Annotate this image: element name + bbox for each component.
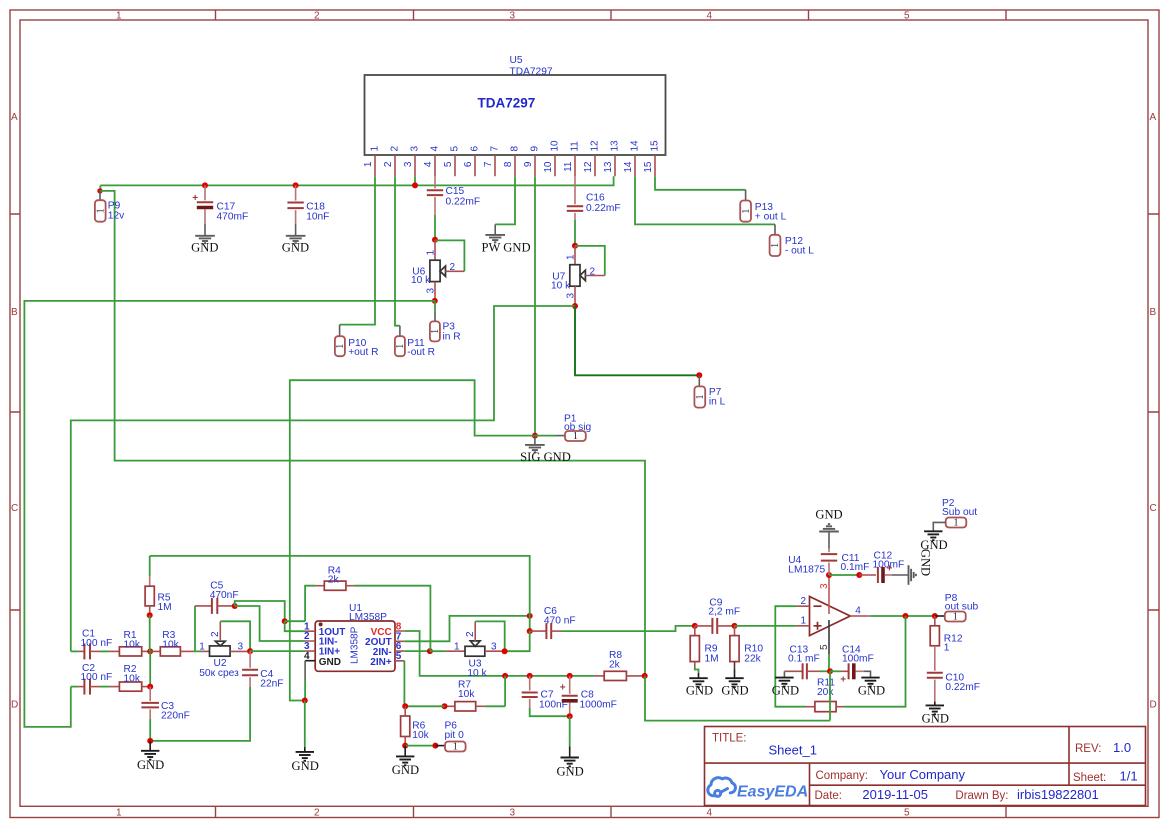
capacitor C2 bbox=[71, 679, 110, 695]
svg-text:0.1mF: 0.1mF bbox=[841, 562, 870, 573]
node SIG junction bbox=[532, 433, 538, 439]
wire C9 to U4 pin1 bbox=[735, 625, 797, 627]
svg-text:LM358P: LM358P bbox=[349, 612, 387, 623]
node R2-C3 junction bbox=[147, 684, 153, 690]
capacitor C18 bbox=[287, 182, 303, 235]
port P7 stub bbox=[698, 375, 700, 386]
node C12 junction bbox=[856, 572, 862, 578]
wire junction to R4 bbox=[285, 620, 305, 622]
node P7 junction bbox=[696, 372, 702, 378]
ground below P2 bbox=[924, 531, 942, 540]
svg-text:B: B bbox=[1150, 307, 1157, 318]
port P13 bbox=[740, 201, 751, 222]
ground below C13 bbox=[775, 678, 793, 687]
wire C6 to U3 pin3 row bbox=[505, 631, 530, 651]
svg-text:1: 1 bbox=[454, 641, 460, 652]
svg-text:15: 15 bbox=[643, 161, 654, 173]
wire 12v net from P9 to LM1875 rail bbox=[100, 191, 645, 676]
port P12 bbox=[770, 235, 781, 256]
op-amp U4 pin5 stub bbox=[828, 620, 830, 654]
svg-text:A: A bbox=[1150, 112, 1157, 123]
frame row ticks right bbox=[1148, 214, 1159, 610]
svg-text:12v: 12v bbox=[108, 211, 125, 222]
capacitor C8 bbox=[560, 676, 578, 716]
svg-text:SIG GND: SIG GND bbox=[520, 450, 571, 464]
svg-text:5: 5 bbox=[904, 11, 910, 22]
svg-text:3: 3 bbox=[410, 146, 421, 152]
svg-text:470mF: 470mF bbox=[217, 211, 249, 222]
wire in-L to P7 bbox=[575, 306, 699, 375]
svg-text:REV:: REV: bbox=[1075, 743, 1101, 755]
svg-text:12: 12 bbox=[583, 161, 594, 173]
resistor R1 bbox=[109, 647, 150, 656]
svg-text:1: 1 bbox=[954, 518, 959, 529]
op-amp U1 LM358P body bbox=[315, 621, 395, 671]
svg-text:1: 1 bbox=[395, 344, 406, 349]
svg-text:3: 3 bbox=[510, 808, 516, 819]
node R6 top junction bbox=[402, 703, 408, 709]
svg-text:5: 5 bbox=[819, 644, 830, 650]
svg-text:2: 2 bbox=[801, 596, 807, 607]
svg-text:1: 1 bbox=[953, 612, 958, 623]
wire C6 output to C9 bbox=[562, 626, 695, 631]
svg-text:6: 6 bbox=[470, 146, 481, 152]
port P10 stub bbox=[339, 325, 341, 337]
power ground PW GND bbox=[494, 224, 496, 235]
svg-text:2: 2 bbox=[314, 808, 320, 819]
wire C5 loop to R4 and pin1 bbox=[235, 601, 285, 621]
svg-text:GND: GND bbox=[922, 712, 949, 726]
ground above C11 inverted bbox=[828, 532, 830, 549]
ground below R9 bbox=[698, 673, 700, 678]
capacitor C13 bbox=[784, 663, 830, 679]
svg-text:1: 1 bbox=[96, 208, 107, 213]
VCC rail junction R7 bbox=[502, 673, 508, 679]
svg-text:+: + bbox=[840, 674, 846, 685]
ground below R10 bbox=[734, 670, 736, 679]
port P12 stub bbox=[774, 224, 776, 234]
svg-text:22nF: 22nF bbox=[260, 678, 283, 689]
wire junction to R2 row bbox=[149, 651, 151, 686]
port P8 bbox=[945, 612, 966, 622]
node P6 junction bbox=[432, 743, 438, 749]
svg-text:GND: GND bbox=[292, 759, 319, 773]
svg-text:in R: in R bbox=[443, 331, 461, 342]
svg-text:TDA7297: TDA7297 bbox=[510, 67, 553, 78]
svg-text:8: 8 bbox=[503, 161, 514, 167]
capacitor C10 bbox=[927, 673, 943, 702]
node C9 left junction bbox=[692, 623, 698, 629]
svg-text:20k: 20k bbox=[817, 687, 834, 698]
svg-text:12: 12 bbox=[590, 140, 601, 152]
wire pin14 to P12 bbox=[635, 176, 775, 224]
svg-text:1M: 1M bbox=[158, 602, 172, 613]
svg-text:ob sig: ob sig bbox=[564, 422, 592, 433]
node C5 right junction bbox=[232, 603, 238, 609]
svg-text:GND: GND bbox=[772, 684, 799, 698]
svg-text:2: 2 bbox=[590, 266, 596, 277]
svg-text:3: 3 bbox=[819, 583, 830, 589]
wire R11 to output bbox=[845, 616, 906, 707]
svg-text:D: D bbox=[11, 700, 18, 711]
ground below U1 pin4 bbox=[304, 701, 306, 748]
wire in-L net to C1 bbox=[71, 306, 575, 651]
svg-text:GND: GND bbox=[319, 657, 341, 668]
wire pin8 to PW GND bbox=[495, 176, 515, 224]
op-amp U1 left pin stubs bbox=[305, 631, 315, 651]
svg-text:Sheet_1: Sheet_1 bbox=[769, 743, 817, 758]
port P9 stub bbox=[99, 191, 101, 200]
svg-text:A: A bbox=[11, 112, 18, 123]
svg-text:5: 5 bbox=[450, 146, 461, 152]
node R4-pin1 junction bbox=[282, 618, 288, 624]
svg-text:100mF: 100mF bbox=[842, 653, 874, 664]
capacitor C4 bbox=[150, 651, 258, 741]
EasyEDA logo cloud bbox=[708, 778, 736, 797]
resistor R8 bbox=[594, 671, 645, 680]
svg-text:15: 15 bbox=[650, 140, 661, 152]
svg-text:2IN+: 2IN+ bbox=[370, 657, 392, 668]
svg-text:1.0: 1.0 bbox=[1113, 740, 1131, 755]
capacitor C12 bbox=[859, 564, 908, 584]
wire 12v down to LM1875 V- rail bbox=[645, 676, 830, 721]
svg-text:Sheet:: Sheet: bbox=[1073, 772, 1106, 784]
port P10 bbox=[335, 336, 345, 356]
svg-text:1: 1 bbox=[741, 209, 752, 214]
node U7 pin3 junction bbox=[572, 303, 578, 309]
ground below C8 bbox=[569, 716, 571, 746]
resistor R11 bbox=[806, 702, 845, 712]
ground below C17 bbox=[195, 236, 215, 243]
ground below C10 bbox=[934, 702, 936, 706]
svg-text:+ out L: + out L bbox=[755, 212, 787, 223]
node pin3 junction bbox=[826, 572, 832, 578]
node U2 pin3 junction bbox=[247, 648, 253, 654]
svg-text:+: + bbox=[192, 193, 198, 204]
frame column ticks bottom bbox=[216, 806, 1007, 817]
wire output to P8 bbox=[870, 615, 935, 617]
port P11 bbox=[395, 336, 405, 356]
svg-text:GND: GND bbox=[721, 684, 748, 698]
svg-text:1: 1 bbox=[573, 431, 578, 442]
svg-text:irbis19822801: irbis19822801 bbox=[1017, 787, 1099, 802]
svg-text:0.1 mF: 0.1 mF bbox=[788, 653, 820, 664]
svg-text:7: 7 bbox=[490, 146, 501, 152]
resistor R3 bbox=[150, 647, 195, 656]
svg-text:10: 10 bbox=[550, 140, 561, 152]
svg-text:10: 10 bbox=[543, 161, 554, 173]
svg-text:4: 4 bbox=[707, 11, 713, 22]
svg-text:10k: 10k bbox=[162, 640, 179, 651]
title block outline bbox=[705, 727, 1146, 806]
resistor R6 bbox=[401, 706, 410, 745]
wire C5 to U1 pin2 bbox=[235, 606, 305, 641]
svg-text:470 nF: 470 nF bbox=[544, 616, 576, 627]
port P2 wire to ground bbox=[933, 522, 945, 531]
svg-text:+out R: +out R bbox=[348, 347, 378, 358]
wire U4 pin2 to R11 bbox=[775, 606, 805, 707]
ground below C14 bbox=[861, 678, 879, 687]
svg-text:3: 3 bbox=[510, 11, 516, 22]
node R10 top junction bbox=[732, 623, 738, 629]
svg-text:1: 1 bbox=[335, 344, 346, 349]
op-amp U1 pin4 stub black bbox=[305, 660, 315, 662]
svg-text:4: 4 bbox=[430, 146, 441, 152]
capacitor C11 bbox=[821, 549, 837, 576]
svg-text:5: 5 bbox=[396, 651, 402, 662]
svg-text:4: 4 bbox=[707, 808, 713, 819]
svg-text:GND: GND bbox=[815, 508, 842, 522]
svg-text:GND: GND bbox=[392, 763, 419, 777]
wire pin3 to bus bbox=[414, 176, 416, 185]
capacitor C16 bbox=[567, 176, 583, 246]
capacitor C15 bbox=[427, 176, 443, 240]
resistor R9 bbox=[690, 626, 699, 673]
node R6 bottom junction bbox=[402, 743, 408, 749]
svg-text:C: C bbox=[11, 503, 18, 514]
svg-text:2k: 2k bbox=[328, 575, 340, 586]
svg-text:1: 1 bbox=[566, 254, 577, 260]
op-amp U1 right pin stubs bbox=[395, 631, 404, 661]
signal ground SIG GND bbox=[534, 436, 536, 445]
svg-text:1: 1 bbox=[695, 395, 706, 400]
svg-text:GND: GND bbox=[920, 538, 947, 552]
svg-text:0.22mF: 0.22mF bbox=[446, 196, 481, 207]
svg-text:-out R: -out R bbox=[407, 347, 435, 358]
ground right of C12 rotated bbox=[909, 565, 916, 585]
wire bus corner to P9 node bbox=[99, 185, 101, 191]
svg-text:470nF: 470nF bbox=[210, 590, 239, 601]
ground below C18 bbox=[286, 236, 306, 243]
svg-text:LM1875: LM1875 bbox=[788, 565, 825, 576]
node P9 junction bbox=[97, 188, 102, 193]
svg-text:1: 1 bbox=[116, 11, 122, 22]
svg-text:+: + bbox=[560, 683, 566, 694]
port P2 bbox=[946, 518, 967, 528]
wire VCC to R7 bbox=[504, 676, 506, 706]
svg-text:1: 1 bbox=[770, 243, 781, 248]
wire U1 pin5 down bbox=[403, 661, 406, 707]
svg-text:GND: GND bbox=[858, 684, 885, 698]
port P13 stub bbox=[745, 190, 747, 201]
node C6 left junction bbox=[527, 628, 533, 634]
node U3 pin3 junction bbox=[502, 648, 508, 654]
op-amp U4 plus sign bbox=[814, 622, 822, 630]
port P11 stub bbox=[399, 326, 401, 337]
svg-text:4: 4 bbox=[304, 651, 310, 662]
svg-text:10k: 10k bbox=[124, 640, 141, 651]
op-amp U1 pin1 marker dot bbox=[319, 622, 323, 626]
chip U5 pin stubs 1-15 bbox=[375, 155, 655, 176]
svg-text:3: 3 bbox=[566, 293, 577, 299]
resistor R2 bbox=[109, 682, 150, 691]
svg-text:B: B bbox=[11, 307, 18, 318]
resistor R10 bbox=[730, 626, 739, 670]
svg-text:Date:: Date: bbox=[815, 790, 843, 802]
wire R6 to P6 bbox=[405, 745, 435, 747]
node pin7 feedback junction bbox=[527, 613, 533, 619]
port P9 bbox=[95, 200, 106, 222]
node U1 pin4 junction bbox=[302, 698, 308, 704]
wire U2 pin3 to U1 pin3 bbox=[250, 650, 305, 652]
node R4-U3 junction bbox=[427, 648, 433, 654]
svg-text:TITLE:: TITLE: bbox=[712, 733, 747, 745]
potentiometer U3 wiper loop bbox=[475, 621, 505, 651]
svg-text:2: 2 bbox=[465, 631, 476, 637]
wire U1 pin4 to sig node bbox=[304, 661, 306, 680]
svg-text:4: 4 bbox=[855, 606, 861, 617]
capacitor C3 bbox=[141, 687, 159, 741]
wire junction to U1 pin1 bbox=[285, 621, 305, 631]
port P7 bbox=[694, 386, 705, 407]
svg-text:GND: GND bbox=[191, 241, 218, 255]
svg-text:2: 2 bbox=[450, 262, 456, 273]
frame column ticks top bbox=[216, 10, 1007, 20]
svg-text:GND: GND bbox=[137, 758, 164, 772]
svg-text:14: 14 bbox=[630, 140, 641, 152]
op-amp U4 input stubs bbox=[796, 606, 809, 626]
svg-text:9: 9 bbox=[530, 146, 541, 152]
node C8 bottom junction bbox=[567, 713, 573, 719]
svg-text:10 k: 10 k bbox=[551, 281, 571, 292]
potentiometer U2 bbox=[201, 621, 250, 656]
op-amp U4 LM1875 triangle bbox=[810, 597, 851, 636]
svg-text:13: 13 bbox=[610, 140, 621, 152]
svg-text:2,2 mF: 2,2 mF bbox=[708, 607, 740, 618]
svg-text:LM358P: LM358P bbox=[350, 626, 361, 664]
capacitor C17 bbox=[192, 182, 213, 235]
node U6 pin3 junction bbox=[432, 298, 438, 304]
svg-text:1: 1 bbox=[363, 161, 374, 167]
wire pin5 to C13-C14 node bbox=[828, 654, 830, 671]
title block divider lines bbox=[705, 727, 1146, 806]
svg-text:Drawn By:: Drawn By: bbox=[955, 790, 1008, 802]
capacitor C7 bbox=[522, 676, 570, 716]
svg-text:10nF: 10nF bbox=[306, 211, 329, 222]
svg-text:1: 1 bbox=[430, 329, 441, 334]
node R12 junction bbox=[932, 613, 938, 619]
svg-text:1: 1 bbox=[801, 615, 807, 626]
op-amp U4 output stub bbox=[850, 615, 870, 617]
port P6 bbox=[445, 742, 466, 752]
potentiometer U2 wiper loop bbox=[220, 621, 250, 651]
svg-text:2019-11-05: 2019-11-05 bbox=[862, 787, 928, 802]
svg-text:100 nF: 100 nF bbox=[81, 672, 113, 683]
node R8 12v junction bbox=[642, 673, 648, 679]
potentiometer U3 bbox=[430, 622, 505, 657]
svg-text:0.22mF: 0.22mF bbox=[945, 682, 980, 693]
svg-text:2: 2 bbox=[383, 161, 394, 167]
ground below C3 bbox=[149, 741, 151, 751]
wire pin15 to P13 bbox=[655, 176, 746, 190]
svg-text:4: 4 bbox=[423, 161, 434, 167]
svg-text:1/1: 1/1 bbox=[1120, 769, 1138, 784]
wire pin3 to C12 bbox=[829, 574, 859, 576]
chip U5 pin numbers outside bbox=[363, 161, 654, 173]
node R7 left junction bbox=[442, 703, 448, 709]
wire U1 pin7 to C6 node bbox=[404, 616, 530, 641]
svg-text:U5: U5 bbox=[510, 55, 523, 66]
svg-text:13: 13 bbox=[603, 161, 614, 173]
svg-text:7: 7 bbox=[483, 161, 494, 167]
wire pin5 node down through R11 bbox=[829, 671, 831, 720]
svg-text:3: 3 bbox=[403, 161, 414, 167]
resistor R5 bbox=[145, 556, 154, 615]
node pin5 junction bbox=[827, 668, 833, 674]
svg-text:EasyEDA: EasyEDA bbox=[737, 784, 808, 801]
svg-text:3: 3 bbox=[491, 641, 497, 652]
svg-text:1: 1 bbox=[370, 146, 381, 152]
frame row ticks left bbox=[10, 214, 20, 610]
svg-text:9: 9 bbox=[523, 161, 534, 167]
wire supply bus bbox=[100, 176, 613, 185]
node R1-R3 junction bbox=[147, 648, 153, 654]
resistor R4 bbox=[305, 581, 430, 651]
wire U1 pin8 VCC drop bbox=[404, 631, 594, 676]
svg-text:1: 1 bbox=[199, 641, 205, 652]
chip U5 TDA7297 body bbox=[365, 75, 666, 155]
potentiometer U6 bbox=[430, 237, 465, 301]
wire C5 left leg down to row bbox=[195, 606, 201, 652]
svg-text:11: 11 bbox=[570, 141, 581, 152]
ground below R6 bbox=[404, 746, 406, 757]
svg-text:GND: GND bbox=[919, 549, 933, 576]
svg-text:GND: GND bbox=[686, 684, 713, 698]
svg-text:100 nF: 100 nF bbox=[81, 638, 113, 649]
wire U1 pin6 to R4 node bbox=[404, 650, 430, 652]
svg-text:1000mF: 1000mF bbox=[580, 699, 617, 710]
port P3 stub bbox=[434, 301, 436, 311]
svg-text:pit 0: pit 0 bbox=[445, 730, 465, 741]
svg-text:1: 1 bbox=[426, 250, 437, 256]
wire sig net to U1 gnd pin bbox=[290, 380, 535, 700]
port P8 stub bbox=[935, 615, 945, 617]
svg-text:1: 1 bbox=[453, 742, 458, 753]
svg-text:6: 6 bbox=[463, 161, 474, 167]
svg-text:5: 5 bbox=[443, 161, 454, 167]
svg-text:PW GND: PW GND bbox=[481, 241, 530, 255]
wire R7 to R6 bbox=[405, 705, 444, 707]
wire pin1 to P10 bbox=[340, 176, 375, 324]
wire pin9 to SIG GND bbox=[534, 176, 536, 435]
svg-text:5: 5 bbox=[904, 808, 910, 819]
svg-text:10k: 10k bbox=[124, 673, 141, 684]
node bus pin3 junction bbox=[412, 182, 418, 188]
node C3-C4 ground junction bbox=[147, 738, 153, 744]
port P6 stub bbox=[435, 745, 445, 747]
svg-text:out sub: out sub bbox=[945, 602, 979, 613]
resistor R7 bbox=[445, 702, 506, 711]
op-amp U4 minus sign bbox=[814, 605, 822, 607]
capacitor C1 bbox=[71, 643, 110, 659]
svg-text:D: D bbox=[1150, 700, 1157, 711]
svg-text:Sub out: Sub out bbox=[942, 507, 977, 518]
svg-text:220nF: 220nF bbox=[161, 710, 190, 721]
svg-text:0.22mF: 0.22mF bbox=[586, 203, 621, 214]
VCC rail junction C7 bbox=[527, 673, 533, 679]
svg-text:10k: 10k bbox=[458, 689, 475, 700]
svg-text:Company:: Company: bbox=[816, 770, 868, 782]
svg-text:2k: 2k bbox=[609, 660, 621, 671]
svg-text:10 k: 10 k bbox=[467, 668, 487, 679]
port P1 bbox=[565, 431, 586, 441]
svg-text:GND: GND bbox=[282, 241, 309, 255]
svg-text:2: 2 bbox=[210, 631, 221, 637]
svg-text:50к срез: 50к срез bbox=[199, 668, 239, 679]
port P1 stub bbox=[535, 435, 556, 437]
svg-text:8: 8 bbox=[510, 146, 521, 152]
op-amp U4 pin3 stub bbox=[828, 575, 830, 614]
